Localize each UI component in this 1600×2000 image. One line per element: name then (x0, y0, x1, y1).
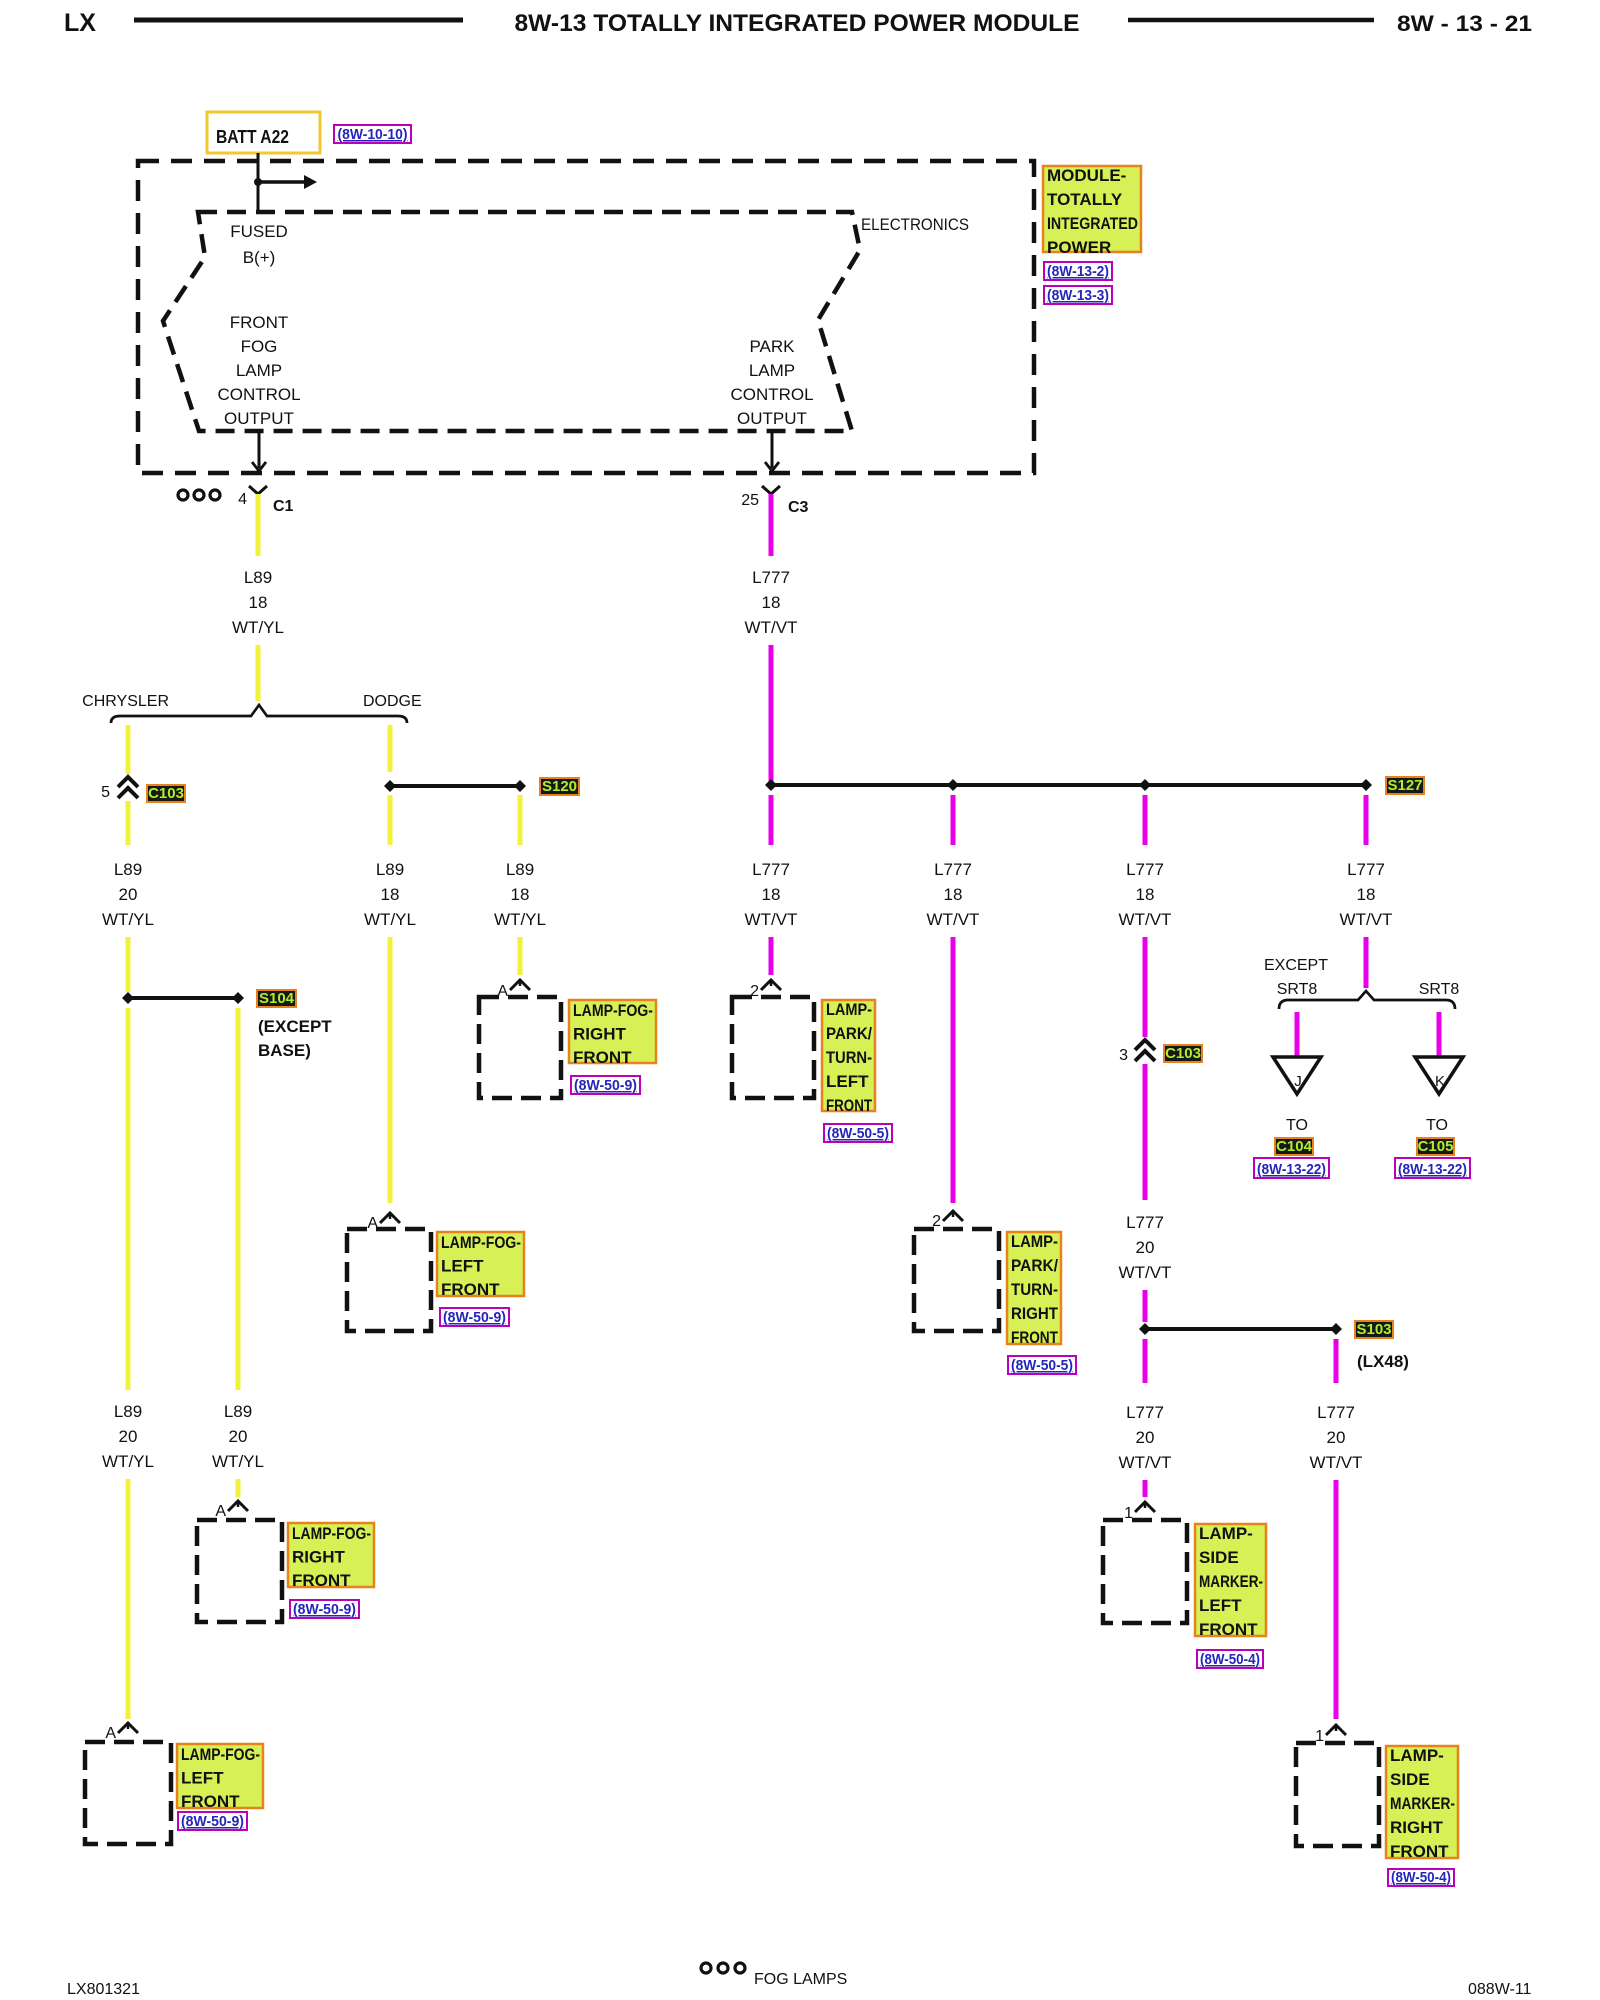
svg-text:PARK: PARK (749, 337, 795, 356)
svg-text:LEFT: LEFT (826, 1072, 869, 1091)
svg-text:LAMP-FOG-: LAMP-FOG- (441, 1233, 521, 1252)
svg-text:LEFT: LEFT (181, 1769, 224, 1788)
svg-text:RIGHT: RIGHT (1390, 1818, 1444, 1837)
svg-text:A: A (215, 1503, 226, 1520)
svg-text:LAMP-: LAMP- (1390, 1746, 1444, 1765)
svg-text:WT/VT: WT/VT (927, 910, 980, 929)
svg-text:BATT A22: BATT A22 (216, 127, 289, 147)
svg-text:L89: L89 (506, 860, 534, 879)
svg-text:18: 18 (762, 885, 781, 904)
svg-text:MARKER-: MARKER- (1390, 1794, 1455, 1813)
svg-text:(8W-50-4): (8W-50-4) (1391, 1869, 1451, 1886)
svg-text:20: 20 (1136, 1238, 1155, 1257)
svg-text:(8W-13-22): (8W-13-22) (1398, 1161, 1467, 1178)
svg-text:L89: L89 (114, 1402, 142, 1421)
svg-text:S120: S120 (542, 778, 577, 795)
svg-text:CONTROL: CONTROL (217, 385, 300, 404)
svg-text:FRONT: FRONT (181, 1792, 240, 1811)
svg-text:(8W-50-9): (8W-50-9) (181, 1813, 244, 1830)
svg-text:PARK/: PARK/ (826, 1024, 872, 1043)
svg-text:WT/VT: WT/VT (1310, 1453, 1363, 1472)
svg-text:C103: C103 (148, 785, 184, 802)
svg-text:20: 20 (1136, 1428, 1155, 1447)
svg-text:TURN-: TURN- (826, 1048, 872, 1067)
svg-text:FUSED: FUSED (230, 222, 288, 241)
svg-text:088W-11: 088W-11 (1468, 1981, 1532, 1998)
svg-text:WT/VT: WT/VT (1119, 1453, 1172, 1472)
svg-text:LAMP: LAMP (749, 361, 795, 380)
svg-text:INTEGRATED: INTEGRATED (1047, 214, 1138, 233)
svg-text:1: 1 (1124, 1505, 1133, 1522)
svg-text:FOG LAMPS: FOG LAMPS (754, 1971, 847, 1988)
svg-text:1: 1 (1315, 1728, 1324, 1745)
svg-text:(8W-50-9): (8W-50-9) (293, 1601, 356, 1618)
svg-text:RIGHT: RIGHT (292, 1548, 346, 1567)
svg-text:L89: L89 (114, 860, 142, 879)
svg-text:8W-13 TOTALLY INTEGRATED POWER: 8W-13 TOTALLY INTEGRATED POWER MODULE (515, 10, 1080, 37)
svg-text:SIDE: SIDE (1390, 1770, 1430, 1789)
svg-text:20: 20 (119, 885, 138, 904)
svg-text:S127: S127 (1387, 777, 1422, 794)
svg-text:(8W-50-4): (8W-50-4) (1200, 1651, 1260, 1668)
svg-text:FRONT: FRONT (1390, 1842, 1449, 1861)
svg-text:SIDE: SIDE (1199, 1548, 1239, 1567)
svg-text:K: K (1435, 1073, 1445, 1090)
svg-text:20: 20 (229, 1427, 248, 1446)
svg-text:EXCEPT: EXCEPT (1264, 957, 1328, 974)
svg-text:5: 5 (101, 784, 110, 801)
svg-text:L777: L777 (1126, 1213, 1164, 1232)
svg-text:LAMP-: LAMP- (1011, 1232, 1058, 1251)
svg-text:LEFT: LEFT (1199, 1596, 1242, 1615)
svg-text:(LX48): (LX48) (1357, 1352, 1409, 1371)
svg-text:TO: TO (1286, 1117, 1308, 1134)
svg-text:L777: L777 (1347, 860, 1385, 879)
svg-text:L777: L777 (752, 568, 790, 587)
svg-text:(8W-50-5): (8W-50-5) (827, 1125, 889, 1142)
svg-text:(8W-13-2): (8W-13-2) (1047, 263, 1109, 280)
svg-text:ELECTRONICS: ELECTRONICS (861, 215, 969, 234)
svg-text:18: 18 (249, 593, 268, 612)
svg-text:S104: S104 (259, 990, 295, 1007)
svg-text:C3: C3 (788, 499, 809, 516)
svg-text:WT/YL: WT/YL (232, 618, 284, 637)
svg-text:8W - 13 - 21: 8W - 13 - 21 (1397, 11, 1532, 36)
svg-text:DODGE: DODGE (363, 693, 422, 710)
svg-text:C105: C105 (1418, 1138, 1454, 1155)
svg-text:MARKER-: MARKER- (1199, 1572, 1263, 1591)
svg-text:(8W-50-5): (8W-50-5) (1011, 1357, 1073, 1374)
svg-text:FRONT: FRONT (1199, 1620, 1258, 1639)
svg-text:18: 18 (1357, 885, 1376, 904)
svg-text:L777: L777 (934, 860, 972, 879)
svg-text:RIGHT: RIGHT (573, 1025, 627, 1044)
svg-text:WT/YL: WT/YL (102, 1452, 154, 1471)
svg-text:20: 20 (119, 1427, 138, 1446)
svg-text:(8W-13-22): (8W-13-22) (1257, 1161, 1326, 1178)
svg-text:LX: LX (64, 9, 96, 37)
svg-text:WT/VT: WT/VT (1119, 1263, 1172, 1282)
svg-text:18: 18 (762, 593, 781, 612)
svg-text:J: J (1294, 1073, 1302, 1090)
svg-text:FRONT: FRONT (441, 1280, 500, 1299)
svg-text:L777: L777 (1126, 860, 1164, 879)
svg-text:LAMP-: LAMP- (826, 1000, 872, 1019)
svg-text:LX801321: LX801321 (67, 1981, 140, 1998)
svg-text:MODULE-: MODULE- (1047, 166, 1126, 185)
svg-text:WT/VT: WT/VT (1119, 910, 1172, 929)
svg-text:SRT8: SRT8 (1277, 981, 1318, 998)
svg-text:4: 4 (238, 491, 247, 508)
svg-text:(8W-50-9): (8W-50-9) (443, 1309, 506, 1326)
svg-text:TOTALLY: TOTALLY (1047, 190, 1123, 209)
svg-text:WT/VT: WT/VT (745, 910, 798, 929)
svg-text:TURN-: TURN- (1011, 1280, 1058, 1299)
svg-text:L89: L89 (244, 568, 272, 587)
svg-text:18: 18 (944, 885, 963, 904)
svg-text:C1: C1 (273, 498, 294, 515)
svg-text:L777: L777 (752, 860, 790, 879)
svg-text:C104: C104 (1276, 1138, 1313, 1155)
svg-text:LAMP-: LAMP- (1199, 1524, 1253, 1543)
svg-text:OUTPUT: OUTPUT (737, 409, 807, 428)
svg-text:FOG: FOG (241, 337, 278, 356)
svg-text:A: A (105, 1725, 116, 1742)
svg-text:TO: TO (1426, 1117, 1448, 1134)
svg-text:C103: C103 (1165, 1045, 1201, 1062)
svg-text:(8W-50-9): (8W-50-9) (574, 1077, 637, 1094)
svg-text:POWER: POWER (1047, 238, 1111, 257)
svg-text:S103: S103 (1356, 1321, 1391, 1338)
svg-text:RIGHT: RIGHT (1011, 1304, 1059, 1323)
svg-text:LAMP-FOG-: LAMP-FOG- (292, 1524, 371, 1543)
svg-text:WT/YL: WT/YL (102, 910, 154, 929)
svg-text:CONTROL: CONTROL (730, 385, 813, 404)
svg-text:OUTPUT: OUTPUT (224, 409, 294, 428)
svg-text:3: 3 (1119, 1047, 1128, 1064)
svg-text:(8W-10-10): (8W-10-10) (338, 126, 408, 143)
svg-text:WT/YL: WT/YL (494, 910, 546, 929)
svg-text:LEFT: LEFT (441, 1257, 484, 1276)
svg-text:B(+): B(+) (243, 248, 276, 267)
svg-text:WT/YL: WT/YL (364, 910, 416, 929)
svg-text:(8W-13-3): (8W-13-3) (1047, 287, 1109, 304)
svg-text:FRONT: FRONT (826, 1096, 872, 1115)
svg-text:LAMP-FOG-: LAMP-FOG- (573, 1001, 653, 1020)
svg-text:25: 25 (741, 492, 759, 509)
svg-text:L89: L89 (376, 860, 404, 879)
svg-text:18: 18 (1136, 885, 1155, 904)
svg-text:WT/YL: WT/YL (212, 1452, 264, 1471)
svg-text:(EXCEPT: (EXCEPT (258, 1017, 332, 1036)
svg-text:WT/VT: WT/VT (745, 618, 798, 637)
svg-text:BASE): BASE) (258, 1041, 311, 1060)
svg-text:PARK/: PARK/ (1011, 1256, 1058, 1275)
svg-text:FRONT: FRONT (230, 313, 289, 332)
svg-text:20: 20 (1327, 1428, 1346, 1447)
svg-text:L777: L777 (1317, 1403, 1355, 1422)
svg-text:CHRYSLER: CHRYSLER (82, 693, 169, 710)
svg-text:L89: L89 (224, 1402, 252, 1421)
svg-text:FRONT: FRONT (573, 1048, 632, 1067)
svg-text:WT/VT: WT/VT (1340, 910, 1393, 929)
svg-text:FRONT: FRONT (1011, 1328, 1058, 1347)
svg-text:LAMP: LAMP (236, 361, 282, 380)
svg-text:L777: L777 (1126, 1403, 1164, 1422)
svg-text:18: 18 (511, 885, 530, 904)
svg-text:FRONT: FRONT (292, 1571, 351, 1590)
svg-text:LAMP-FOG-: LAMP-FOG- (181, 1745, 260, 1764)
svg-text:SRT8: SRT8 (1419, 981, 1460, 998)
svg-text:18: 18 (381, 885, 400, 904)
